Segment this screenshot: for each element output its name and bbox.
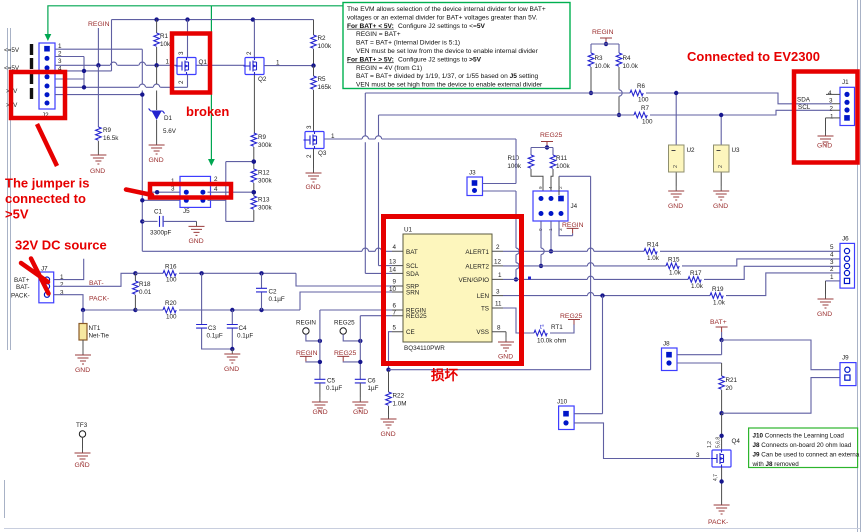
frame border bottom xyxy=(4,528,860,530)
resistor R22 1.0M xyxy=(388,371,390,392)
junction REGIN stem xyxy=(96,63,100,67)
wire vertical x84 xyxy=(83,57,85,88)
resistor R2 100k xyxy=(313,20,315,35)
wire J4 pin3 top to select net xyxy=(558,176,560,195)
power bar BAT+ xyxy=(716,327,728,332)
wire J9 return loop xyxy=(722,378,840,414)
svg-text:GND: GND xyxy=(498,354,513,361)
svg-text:TF3: TF3 xyxy=(76,422,88,429)
hop pin6 row over x=142.3 xyxy=(139,84,145,87)
SECTION: top-middle Q1/Q2/Q3 divider xyxy=(112,17,517,221)
svg-text:J5: J5 xyxy=(183,208,190,215)
wire J10 pin2 to Q4 gate xyxy=(574,423,710,459)
svg-text:1.0k: 1.0k xyxy=(691,283,704,290)
svg-text:VEN must be set low from the d: VEN must be set low from the device to e… xyxy=(356,48,539,55)
svg-text:C3: C3 xyxy=(208,325,217,332)
wire SCL rail xyxy=(379,114,635,116)
connector J9 xyxy=(840,363,856,386)
junction ALERT2 xyxy=(539,264,543,268)
svg-text:3300pF: 3300pF xyxy=(150,230,172,237)
svg-text:R11: R11 xyxy=(556,155,568,162)
svg-text:4: 4 xyxy=(548,186,553,189)
svg-text:100k: 100k xyxy=(318,43,333,50)
wire J2 pin2 row xyxy=(55,56,84,58)
junction C3 C4 ground xyxy=(230,347,234,351)
wire SRP from R16 row xyxy=(296,273,392,286)
svg-text:1: 1 xyxy=(830,114,834,121)
resistor R6 100 xyxy=(630,90,643,96)
wire J2 pin4 row xyxy=(55,70,112,72)
svg-text:100k: 100k xyxy=(507,163,522,170)
svg-text:PACK-: PACK- xyxy=(708,519,728,526)
svg-text:J3: J3 xyxy=(469,170,476,177)
svg-text:GND: GND xyxy=(75,367,90,374)
junction REGIN net xyxy=(318,360,322,364)
svg-text:1.0k: 1.0k xyxy=(647,255,660,262)
wire J6 pin1 to ground xyxy=(826,280,841,282)
wire J7 pin1 stub up xyxy=(54,259,84,280)
green annotation wire to J2 and J5 xyxy=(48,6,343,161)
resistor R15 1.0k xyxy=(666,263,679,269)
svg-text:R14: R14 xyxy=(647,242,659,249)
red slash at J5 xyxy=(126,190,152,196)
svg-text:J6: J6 xyxy=(842,236,849,243)
junction R16 row C3 tap xyxy=(199,271,203,275)
svg-text:3: 3 xyxy=(171,186,175,193)
svg-text:165k: 165k xyxy=(318,84,333,91)
zener diode D1 xyxy=(156,65,158,110)
svg-text:0.1µF: 0.1µF xyxy=(269,296,285,303)
junction R9/R12 xyxy=(252,159,256,163)
junction R3 on SDA rail xyxy=(589,91,593,95)
svg-text:300k: 300k xyxy=(258,142,273,149)
power bar REG25 at RT1 xyxy=(568,320,580,325)
ground under C4 xyxy=(224,349,240,363)
svg-text:C5: C5 xyxy=(327,378,336,385)
svg-text:C1: C1 xyxy=(154,209,163,216)
svg-text:The EVM allows selection of th: The EVM allows selection of the device i… xyxy=(347,6,546,13)
junction BAT+ xyxy=(719,338,723,342)
svg-text:2: 2 xyxy=(718,165,724,168)
SECTION: load J8 J9 J10 R21 Q4 xyxy=(557,296,856,526)
wire Q2 drain down to R9 300k xyxy=(253,75,255,134)
svg-text:2: 2 xyxy=(830,106,834,113)
svg-text:BAT-: BAT- xyxy=(16,284,30,291)
hop ALERT2 over x590.6 xyxy=(587,263,593,266)
wire Q4 drain from R21 xyxy=(721,413,723,450)
connector J5 xyxy=(180,176,211,207)
wire SCL row into U1 xyxy=(379,265,393,267)
SECTION: J5 divider select xyxy=(140,159,256,245)
svg-text:BAT+: BAT+ xyxy=(14,277,30,284)
resistor R4 10.0k xyxy=(616,53,622,66)
transistor Q4 xyxy=(711,450,732,467)
svg-text:R15: R15 xyxy=(668,257,680,264)
junction R20 row C4 top xyxy=(230,308,234,312)
svg-text:Connected to EV2300: Connected to EV2300 xyxy=(687,49,820,64)
svg-text:Net-Tie: Net-Tie xyxy=(89,333,110,340)
junction VEN xyxy=(514,277,518,281)
junction x84 pin4 xyxy=(82,69,86,73)
svg-text:100: 100 xyxy=(638,97,649,104)
junction R18 bottom xyxy=(133,308,137,312)
svg-text:Q1: Q1 xyxy=(199,59,208,66)
svg-text:R3: R3 xyxy=(595,55,604,62)
svg-text:SDA: SDA xyxy=(797,97,811,104)
svg-text:300k: 300k xyxy=(258,205,273,212)
svg-text:R6: R6 xyxy=(637,83,646,90)
wire SDA row into U1 xyxy=(365,272,392,274)
frame border left xyxy=(5,28,11,518)
capacitor C1 3300pF xyxy=(142,220,157,222)
wire VEN row xyxy=(503,278,688,280)
junction R12/R13 xyxy=(252,190,256,194)
wire J8 pin2 to R21 xyxy=(677,362,722,364)
svg-text:3: 3 xyxy=(178,51,185,55)
wire J2 pin3 gate row xyxy=(55,64,245,66)
power bar REGIN at J4 xyxy=(567,228,579,233)
connector J2 xyxy=(39,43,55,109)
svg-text:R20: R20 xyxy=(165,300,177,307)
svg-text:J10: J10 xyxy=(557,399,568,406)
svg-text:>5V: >5V xyxy=(5,207,29,222)
svg-text:J8 Connects on-board 20 ohm lo: J8 Connects on-board 20 ohm load xyxy=(753,442,852,449)
svg-text:ALERT1: ALERT1 xyxy=(465,249,489,256)
svg-text:7: 7 xyxy=(392,310,396,317)
SECTION: top-right REGIN R3R4, R6R7, J1, U2U3 xyxy=(365,29,854,273)
resistor R7 100 xyxy=(634,112,647,118)
hop BAT row over SDA vertical xyxy=(362,248,368,251)
hop J4 wire over ALERT1 row xyxy=(541,248,544,254)
junction REGIN tp xyxy=(318,339,322,343)
svg-text:12: 12 xyxy=(494,259,502,266)
svg-text:5.6V: 5.6V xyxy=(163,128,177,135)
svg-text:1.0k: 1.0k xyxy=(669,270,682,277)
ground under TP3 xyxy=(75,448,91,462)
svg-text:16.5k: 16.5k xyxy=(103,135,119,142)
SECTION: middle REG25 R10 R11 J3 J4 xyxy=(467,132,591,370)
wire SRN from R20 row xyxy=(300,292,392,310)
resistor R12 300k xyxy=(251,169,257,182)
svg-text:R9: R9 xyxy=(103,127,112,134)
wire J4 pin6 to REGIN tap xyxy=(559,221,573,236)
svg-text:D1: D1 xyxy=(164,115,173,122)
connector J1 xyxy=(840,87,855,125)
junction ALERT1 xyxy=(549,249,553,253)
svg-text:8: 8 xyxy=(497,324,501,331)
svg-text:For BAT+ < 5V:: For BAT+ < 5V: xyxy=(347,23,394,30)
svg-text:R7: R7 xyxy=(641,105,650,112)
power bar REGIN down xyxy=(300,356,312,361)
svg-text:R13: R13 xyxy=(258,197,270,204)
svg-text:GND: GND xyxy=(353,409,368,416)
red box around Q1 xyxy=(172,34,210,93)
pin stub J1-4 xyxy=(826,93,840,95)
svg-text:VSS: VSS xyxy=(476,329,489,336)
wire Q2 source to rail xyxy=(253,20,255,58)
frame border right xyxy=(858,0,861,532)
svg-text:3: 3 xyxy=(306,125,313,129)
svg-text:R21: R21 xyxy=(726,377,738,384)
svg-text:3: 3 xyxy=(60,290,64,297)
svg-text:Configure J2 settings to <=5V: Configure J2 settings to <=5V xyxy=(398,23,485,30)
junction x142.3 pin7 xyxy=(140,92,144,96)
svg-text:3: 3 xyxy=(830,259,834,266)
svg-text:SDA: SDA xyxy=(406,271,420,278)
svg-text:9: 9 xyxy=(538,186,543,189)
svg-text:1: 1 xyxy=(166,59,170,66)
connector J6 xyxy=(840,243,855,288)
SECTION: bottom caps and testpoints xyxy=(196,271,590,438)
resistor R19 1.0k xyxy=(710,293,723,299)
note box EVM divider selection xyxy=(343,3,570,89)
svg-text:BAT+: BAT+ xyxy=(710,319,727,326)
junction left vertical C1 xyxy=(140,198,144,202)
svg-text:NT1: NT1 xyxy=(89,325,101,332)
wire J7 pin3 PACK- xyxy=(54,295,136,310)
svg-text:3: 3 xyxy=(696,452,700,459)
svg-text:2: 2 xyxy=(673,165,679,168)
svg-text:14: 14 xyxy=(389,267,397,274)
svg-text:REGIN = 4V (from C1): REGIN = 4V (from C1) xyxy=(356,65,422,72)
note box load options xyxy=(749,428,858,468)
red box around J1 xyxy=(794,72,858,163)
svg-text:BAT: BAT xyxy=(406,249,418,256)
hop VEN over x590.6 xyxy=(587,276,593,279)
junction rail R1 xyxy=(154,17,158,21)
junction REG25 net xyxy=(358,360,362,364)
svg-text:VEN must be set high from the: VEN must be set high from the device to … xyxy=(356,82,543,89)
svg-text:with J8 removed: with J8 removed xyxy=(752,461,800,468)
capacitor C3 0.1uF xyxy=(202,273,233,349)
red slash from J2 box xyxy=(37,124,57,166)
svg-text:2: 2 xyxy=(60,282,64,289)
resistor R21 20 xyxy=(719,376,725,389)
svg-text:100k: 100k xyxy=(556,163,571,170)
junction on pin3 feed xyxy=(155,190,159,194)
svg-text:1: 1 xyxy=(498,272,502,279)
no-connect mark VEN xyxy=(528,277,531,280)
green arrow to J5 xyxy=(208,159,215,166)
wire SCL vertical to U1 xyxy=(378,115,380,266)
transistor Q3 xyxy=(304,132,325,149)
wire BAT row to U1 xyxy=(142,250,392,252)
hop R4 over SDA rail xyxy=(619,90,622,96)
svg-text:J9 Can be used to connect an e: J9 Can be used to connect an externa xyxy=(753,452,860,459)
wire top rail xyxy=(112,19,314,21)
svg-text:SCL: SCL xyxy=(406,263,419,270)
svg-text:0.1µF: 0.1µF xyxy=(237,333,253,340)
resistor R16 100 xyxy=(135,272,163,274)
wire Q1 source down xyxy=(187,75,189,88)
wire J5 left feed rows xyxy=(142,192,183,200)
svg-text:The jumper is: The jumper is xyxy=(5,176,90,191)
junction pin3/NT1 xyxy=(81,308,85,312)
svg-text:100: 100 xyxy=(166,277,177,284)
svg-text:SRN: SRN xyxy=(406,290,420,297)
resistor R13 300k xyxy=(251,196,257,209)
junction R16 row C2 top xyxy=(259,271,263,275)
wire LEN row xyxy=(503,295,710,297)
svg-text:BQ34110PWR: BQ34110PWR xyxy=(404,345,445,352)
svg-text:4: 4 xyxy=(392,244,396,251)
svg-text:R17: R17 xyxy=(690,270,702,277)
svg-text:BAT = BAT+ (Internal Divide: BAT = BAT+ (Internal Divider is 5:1) xyxy=(356,40,460,47)
wire to R10 R11 xyxy=(531,148,553,156)
wire J4 pin down to ALERT1 xyxy=(550,221,552,251)
svg-text:13: 13 xyxy=(389,258,397,265)
red box around J2 xyxy=(11,72,65,118)
svg-text:100: 100 xyxy=(642,119,653,126)
svg-text:1.0M: 1.0M xyxy=(393,401,407,408)
wire J7 pin2 BAT- xyxy=(54,273,136,286)
svg-text:SCL: SCL xyxy=(798,104,811,111)
capacitor C6 1uF xyxy=(355,379,366,383)
svg-text:C4: C4 xyxy=(239,325,248,332)
resistor R17 1.0k xyxy=(688,277,701,283)
svg-text:5,6,8: 5,6,8 xyxy=(716,437,722,448)
capacitor C2 0.1uF xyxy=(261,273,263,310)
svg-text:For BAT+ > 5V:: For BAT+ > 5V: xyxy=(347,56,394,63)
svg-text:Q2: Q2 xyxy=(258,76,267,83)
svg-text:2: 2 xyxy=(306,154,313,158)
junction CE row xyxy=(386,368,390,372)
svg-text:GND: GND xyxy=(189,238,204,245)
wire SDA vertical to U1 xyxy=(364,93,366,273)
red slashes on J7 xyxy=(21,259,49,294)
resistor R11 100k xyxy=(550,155,556,168)
svg-text:10.0k: 10.0k xyxy=(623,63,639,70)
wire J2 pin7 row xyxy=(55,94,142,96)
svg-text:RT1: RT1 xyxy=(551,324,563,331)
svg-text:REG25: REG25 xyxy=(560,313,583,320)
junction R1/D1/gate xyxy=(154,63,158,67)
wire J1 pin1 to ground xyxy=(826,117,841,119)
svg-text:REGIN: REGIN xyxy=(592,29,614,36)
connector J10 xyxy=(559,406,575,430)
svg-text:REG25: REG25 xyxy=(406,313,427,320)
svg-text:1,2: 1,2 xyxy=(707,441,713,448)
svg-text:R10: R10 xyxy=(507,155,519,162)
wire ALERT2 row xyxy=(503,265,666,267)
wire J8 pin1 xyxy=(677,354,722,356)
hop pin6 row over x=156.6 xyxy=(153,84,159,87)
svg-text:REGIN: REGIN xyxy=(296,320,316,327)
junction R4 on SCL rail xyxy=(617,113,621,117)
wire J10 pin1 xyxy=(574,296,603,414)
wire J4 pin down to ALERT2 xyxy=(540,221,542,266)
svg-text:2: 2 xyxy=(830,266,834,273)
ground under C5 xyxy=(312,397,328,411)
svg-text:R5: R5 xyxy=(318,76,327,83)
svg-text:TS: TS xyxy=(481,306,489,313)
junction x84 pin6 xyxy=(82,85,86,89)
connector J3 xyxy=(467,177,483,196)
ground under Q3 xyxy=(306,168,322,182)
svg-text:4: 4 xyxy=(830,252,834,259)
svg-text:CE: CE xyxy=(406,329,415,336)
junction rail Q2 xyxy=(251,17,255,21)
svg-text:J8: J8 xyxy=(663,341,670,348)
junction R20 row C2 bottom xyxy=(259,308,263,312)
thermistor RT1 xyxy=(503,308,534,333)
resistor R9 16.5k xyxy=(97,65,99,127)
svg-text:9: 9 xyxy=(392,279,396,286)
hop BAT row over SCL vertical xyxy=(375,248,381,251)
wire right-side loop vertical xyxy=(226,162,254,222)
SECTION: bottom-left J7 input xyxy=(11,259,300,469)
svg-text:R1: R1 xyxy=(160,33,169,40)
resistor R9 300k xyxy=(251,133,257,146)
ground right of C1 xyxy=(189,221,205,235)
ground under VSS xyxy=(498,337,514,351)
svg-text:5: 5 xyxy=(392,324,396,331)
net tie NT1 xyxy=(82,310,84,324)
power bar REG25 xyxy=(541,142,553,147)
wire vertical x111.5 from rail xyxy=(111,20,113,71)
junction Q4 drain xyxy=(719,434,723,438)
hop Q3 row over x=378.5 xyxy=(375,136,381,139)
svg-text:REGIN = BAT+: REGIN = BAT+ xyxy=(356,31,401,38)
hop pin3 row over x=142.3 xyxy=(139,62,145,65)
svg-text:5: 5 xyxy=(830,244,834,251)
svg-text:U1: U1 xyxy=(404,227,413,234)
svg-text:J1: J1 xyxy=(842,79,849,86)
junction REG25 xyxy=(545,145,549,149)
power bar REGIN xyxy=(600,38,612,43)
svg-text:GND: GND xyxy=(713,203,728,210)
svg-text:R2: R2 xyxy=(318,35,327,42)
svg-text:connected to: connected to xyxy=(5,191,86,206)
jumper shunt bars left of J2 xyxy=(30,44,33,99)
wire U1 REGIN pin to C5 xyxy=(320,310,392,379)
svg-text:U2: U2 xyxy=(687,147,696,154)
wire U1 REG25 pin to C6 xyxy=(360,316,392,380)
svg-text:BAT-: BAT- xyxy=(89,280,104,287)
connector J8 xyxy=(662,348,678,371)
svg-text:R19: R19 xyxy=(712,286,724,293)
ground under C6 xyxy=(352,397,368,411)
wire CE to R22 xyxy=(389,332,393,370)
svg-text:R9: R9 xyxy=(258,134,267,141)
junction REGIN xyxy=(604,42,608,46)
svg-text:300k: 300k xyxy=(258,178,273,185)
svg-text:J10 Connects the Learning Load: J10 Connects the Learning Load xyxy=(753,433,845,440)
power symbol PACK- xyxy=(714,505,730,514)
transistor Q2 xyxy=(244,58,265,75)
power bar REG25 down xyxy=(337,356,349,361)
IC U1 BQ34110PWR body xyxy=(403,234,492,342)
svg-text:GND: GND xyxy=(224,366,239,373)
suppressor U2 xyxy=(675,93,677,145)
svg-text:PACK-: PACK- xyxy=(11,293,30,300)
svg-text:GND: GND xyxy=(313,409,328,416)
svg-text:R16: R16 xyxy=(165,264,177,271)
junction top loop xyxy=(252,159,256,163)
wire J2 pin5 row xyxy=(55,78,84,80)
wire J5 right rows xyxy=(208,192,254,200)
svg-text:GND: GND xyxy=(90,168,105,175)
svg-text:4,7: 4,7 xyxy=(713,474,719,481)
sense resistor R18 0.01 xyxy=(134,273,136,281)
SECTION: U1 xyxy=(365,227,582,361)
svg-text:VEN/GPIO: VEN/GPIO xyxy=(459,277,490,284)
svg-text:GND: GND xyxy=(668,203,683,210)
hop pin3 row over x=113.7 xyxy=(111,62,117,65)
junction rail Q1 xyxy=(185,17,189,21)
svg-text:10.0k ohm: 10.0k ohm xyxy=(537,338,566,345)
ground under U3 xyxy=(713,186,729,200)
